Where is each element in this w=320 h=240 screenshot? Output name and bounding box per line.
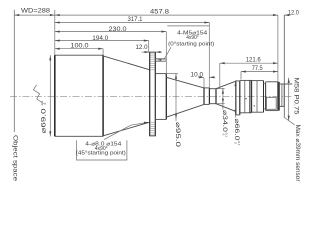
dimension 121.6 [220, 62, 278, 64]
leader from bottom note to ring [104, 122, 148, 139]
ring block B [240, 79, 252, 81]
extension line waist / box right edge [208, 23, 210, 88]
svg-text:194.0: 194.0 [92, 35, 109, 42]
dimension 100.0 [55, 48, 103, 50]
knurled flange ring hatch bottom band [150, 121, 155, 136]
ring block D [266, 81, 278, 83]
wire dimension chain line y15 [14, 14, 278, 16]
extension line front face [54, 10, 56, 55]
waist section B [208, 88, 210, 104]
cone taper 1 bottom [103, 122, 150, 136]
svg-text:(0°starting point): (0°starting point) [168, 42, 214, 48]
dimension 194.0 [55, 40, 149, 42]
extension line ring left [148, 41, 150, 53]
image plane line [283, 15, 285, 118]
svg-text:100.0: 100.0 [71, 43, 90, 50]
expansion cone top [216, 81, 236, 89]
dia34 dimension [216, 88, 225, 90]
svg-text:Object space: Object space [11, 135, 18, 182]
cone taper 2 bottom [166, 104, 204, 117]
ring block A dia66 [235, 81, 237, 115]
expansion cone bottom [216, 104, 236, 112]
flange ring outline [149, 52, 151, 136]
svg-text:⌀69.0: ⌀69.0 [41, 108, 48, 134]
svg-text:M58 P0.75: M58 P0.75 [293, 78, 299, 116]
extension line flange face [277, 15, 279, 82]
svg-text:457.8: 457.8 [150, 9, 170, 16]
svg-text:WD=288: WD=288 [21, 8, 50, 15]
sensor dimension line [288, 78, 290, 121]
mount flange face [277, 82, 280, 111]
svg-text:⌀34.0: ⌀34.0 [221, 110, 228, 132]
M5 screw on ring [156, 58, 165, 61]
extension line 77.5 left [240, 72, 242, 80]
dimension dia69 vertical [49, 55, 51, 136]
dimension 317.1 [55, 22, 210, 24]
svg-text:⌀66.0: ⌀66.0 [233, 119, 240, 141]
svg-text:(45°starting point): (45°starting point) [76, 151, 126, 157]
step edge [165, 74, 167, 120]
lens barrel front section [55, 54, 103, 56]
dia69 squiggle leader [33, 85, 43, 104]
svg-text:Max ⌀39mm sensor: Max ⌀39mm sensor [294, 125, 300, 182]
dia95 dimension [167, 73, 178, 75]
cone taper 2 top [166, 77, 204, 88]
tube between ring and step [156, 73, 166, 75]
note box top (4-M5 holes) [167, 25, 209, 27]
svg-text:317.1: 317.1 [128, 16, 144, 23]
dia66 dimension [235, 81, 237, 118]
extension line barrel rear [102, 49, 104, 56]
dimension 230.0 [55, 31, 167, 33]
ring block C [250, 80, 264, 82]
extension line step [165, 32, 167, 74]
window slot on block D [266, 97, 276, 109]
knurled flange ring hatch top band [150, 52, 155, 71]
svg-text:77.5: 77.5 [252, 65, 264, 72]
groove notch [263, 81, 265, 113]
dimension 77.5 [241, 71, 278, 73]
sensor leader [285, 118, 295, 125]
thread section M58 [280, 83, 293, 85]
svg-text:-0.1: -0.1 [225, 132, 229, 138]
extension line 121.6 left [219, 63, 221, 88]
leader from top note to ring [157, 47, 171, 60]
svg-text:12.0: 12.0 [136, 44, 149, 51]
svg-text:⌀95.0: ⌀95.0 [174, 122, 181, 148]
svg-text:4x90°: 4x90° [186, 35, 199, 41]
waist section A [203, 88, 205, 105]
optical axis centerline [10, 95, 292, 97]
cone taper 1 top [103, 56, 150, 70]
svg-text:121.6: 121.6 [246, 57, 262, 64]
note box bottom (4-dia8 holes) [77, 140, 127, 160]
object plane line [13, 10, 15, 132]
svg-text:230.0: 230.0 [109, 26, 128, 33]
svg-text:-0.1: -0.1 [237, 140, 241, 146]
